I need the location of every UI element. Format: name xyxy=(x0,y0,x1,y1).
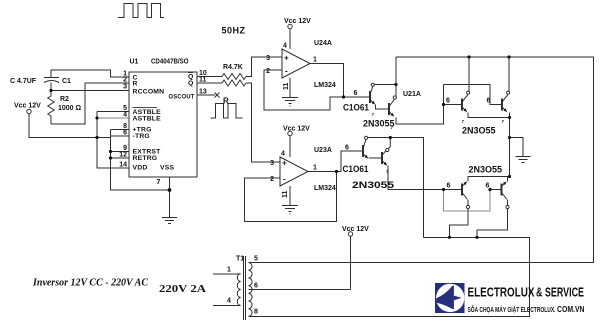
svg-text:CD4047B/SO: CD4047B/SO xyxy=(151,59,189,66)
svg-text:R4.7K: R4.7K xyxy=(223,64,243,71)
svg-text:2N3055: 2N3055 xyxy=(352,180,394,190)
svg-text:220V 2A: 220V 2A xyxy=(159,284,206,295)
svg-text:+: + xyxy=(284,54,289,63)
svg-text:T1: T1 xyxy=(236,256,244,263)
svg-text:7: 7 xyxy=(157,179,161,186)
svg-text:6: 6 xyxy=(446,98,450,105)
svg-text:C1O61: C1O61 xyxy=(343,103,369,113)
svg-text:3: 3 xyxy=(270,160,274,167)
svg-text:U23A: U23A xyxy=(314,147,332,154)
svg-text:6: 6 xyxy=(345,145,349,152)
svg-text:U24A: U24A xyxy=(314,40,332,47)
svg-text:Vcc 12V: Vcc 12V xyxy=(283,126,310,133)
svg-text:11: 11 xyxy=(283,82,290,90)
svg-text:4: 4 xyxy=(283,43,287,50)
svg-text:6: 6 xyxy=(123,130,127,137)
svg-text:C1O61: C1O61 xyxy=(343,164,369,174)
svg-text:6: 6 xyxy=(487,98,491,105)
svg-text:U21A: U21A xyxy=(403,91,421,98)
svg-text:5: 5 xyxy=(254,256,258,263)
svg-text:Vcc 12V: Vcc 12V xyxy=(284,18,311,25)
svg-text:-TRG: -TRG xyxy=(133,133,150,140)
svg-text:2N3O55: 2N3O55 xyxy=(462,126,496,136)
svg-text:Q: Q xyxy=(188,80,194,87)
svg-text:1: 1 xyxy=(313,165,317,172)
svg-text:1000 Ω: 1000 Ω xyxy=(58,105,82,112)
svg-text:R: R xyxy=(223,97,229,106)
svg-text:+: + xyxy=(282,159,287,168)
svg-text:4: 4 xyxy=(281,151,285,158)
svg-text:11: 11 xyxy=(199,77,207,84)
svg-text:4: 4 xyxy=(227,298,231,305)
svg-text:6: 6 xyxy=(447,183,451,190)
svg-text:COM.VN: COM.VN xyxy=(557,304,585,314)
svg-text:R: R xyxy=(133,81,138,88)
svg-text:2: 2 xyxy=(270,176,274,183)
svg-text:50HZ: 50HZ xyxy=(222,26,246,36)
svg-text:ELECTROLUX: ELECTROLUX xyxy=(468,286,536,300)
svg-text:6: 6 xyxy=(254,283,258,290)
svg-text:C 4.7UF: C 4.7UF xyxy=(10,78,37,85)
svg-text:R2: R2 xyxy=(60,96,69,103)
svg-text:Inversor 12V CC - 220V AC: Inversor 12V CC - 220V AC xyxy=(32,278,149,289)
svg-text:3: 3 xyxy=(123,84,127,91)
svg-text:LM324: LM324 xyxy=(314,185,336,192)
svg-text:6: 6 xyxy=(486,183,490,190)
svg-text:11: 11 xyxy=(282,190,289,198)
svg-text:RETRG: RETRG xyxy=(133,155,158,162)
svg-text:Vcc 12V: Vcc 12V xyxy=(342,226,369,233)
svg-text:2: 2 xyxy=(123,77,127,84)
svg-text:VDD: VDD xyxy=(133,165,148,172)
svg-text:-: - xyxy=(285,67,288,76)
svg-text:& SERVICE: & SERVICE xyxy=(536,286,584,300)
svg-text:2: 2 xyxy=(266,68,270,75)
svg-text:4: 4 xyxy=(123,112,127,119)
svg-text:8: 8 xyxy=(254,309,258,316)
svg-text:C1: C1 xyxy=(62,78,71,85)
svg-text:1: 1 xyxy=(227,267,231,274)
svg-text:1: 1 xyxy=(313,57,317,64)
svg-text:RCCOMN: RCCOMN xyxy=(133,89,165,96)
svg-text:12: 12 xyxy=(119,152,127,159)
svg-text:14: 14 xyxy=(119,162,127,169)
svg-text:U1: U1 xyxy=(130,59,139,66)
svg-text:2N3O55: 2N3O55 xyxy=(469,165,503,175)
svg-text:-: - xyxy=(283,175,286,184)
svg-text:ASTBLE: ASTBLE xyxy=(133,115,162,122)
svg-text:3: 3 xyxy=(266,55,270,62)
svg-text:VSS: VSS xyxy=(160,165,174,172)
svg-text:LM324: LM324 xyxy=(314,82,336,89)
svg-text:Vcc 12V: Vcc 12V xyxy=(14,103,41,110)
svg-text:6: 6 xyxy=(354,90,358,97)
svg-text:13: 13 xyxy=(199,89,207,96)
svg-text:SỖA CHỌA MÁY GIẶT ELECTROLUX.: SỖA CHỌA MÁY GIẶT ELECTROLUX. xyxy=(468,305,556,314)
svg-text:OSCOUT: OSCOUT xyxy=(169,94,196,101)
